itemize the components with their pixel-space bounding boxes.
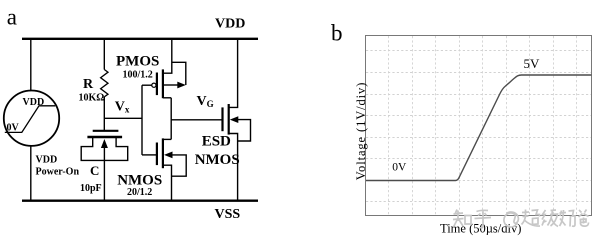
svg-text:VDD: VDD — [215, 17, 245, 32]
char 超 — [522, 210, 541, 227]
resistor R1 zigzag — [101, 70, 108, 97]
svg-text:b: b — [331, 20, 343, 45]
nmos gate lead — [142, 154, 157, 156]
char 奶 — [560, 210, 576, 227]
VSS rail — [22, 199, 258, 201]
char 级 — [542, 210, 558, 227]
svg-text:a: a — [7, 5, 17, 30]
svg-text:0V: 0V — [392, 162, 407, 174]
esd source lead to VSS — [229, 134, 238, 201]
pmos gate bubble — [152, 83, 156, 87]
svg-text:VDD: VDD — [36, 155, 58, 166]
svg-text:10pF: 10pF — [80, 183, 102, 194]
esd bulk tie to source — [230, 116, 239, 123]
voltage source VDD Power-On — [4, 91, 59, 146]
wire: source bottom to VSS rail — [30, 146, 32, 201]
char 乎 — [475, 210, 492, 227]
nmos drain lead — [163, 138, 171, 140]
svg-text:VDD: VDD — [23, 97, 45, 108]
svg-text:0V: 0V — [7, 123, 20, 134]
svg-text:Power-On: Power-On — [36, 167, 80, 178]
svg-text:VSS: VSS — [215, 207, 241, 222]
wire: resistor to node Vx and capacitor top — [103, 97, 105, 131]
svg-text:ESD: ESD — [202, 134, 231, 150]
nmos bulk tie to source — [164, 152, 173, 159]
wire: capacitor bottom to VSS rail — [103, 160, 105, 200]
pmos bulk tie to source — [163, 84, 178, 86]
char 爸 — [579, 210, 589, 227]
pmos gate lead — [142, 84, 152, 86]
node VG wire to ESD NMOS gate — [171, 119, 222, 121]
svg-text:Vx: Vx — [115, 100, 130, 115]
svg-text:10KΩ: 10KΩ — [79, 93, 105, 104]
esd gate bar — [221, 107, 223, 131]
esd nmos M3 — [223, 39, 251, 201]
pmos M1 — [142, 39, 186, 98]
svg-text:Voltage (1V/div): Voltage (1V/div) — [354, 82, 368, 181]
char @ — [504, 212, 518, 227]
esd drain lead to VDD — [229, 39, 238, 108]
svg-text:100/1.2: 100/1.2 — [123, 70, 153, 81]
wire: gate bus Vx to PMOS/NMOS gates — [141, 85, 143, 155]
svg-text:5V: 5V — [524, 56, 541, 71]
pmos channel bar — [162, 69, 164, 98]
esd channel bar — [228, 104, 230, 135]
capacitor C1 (MOS capacitor) — [81, 131, 128, 161]
nmos channel bar — [162, 138, 164, 168]
wire: VDD rail to resistor — [103, 39, 105, 70]
nmos M2 — [142, 138, 186, 200]
svg-text:R: R — [83, 77, 94, 92]
plot border — [366, 36, 592, 216]
svg-text:NMOS: NMOS — [195, 152, 240, 168]
nmos source lead to VSS — [163, 165, 172, 201]
VDD rail — [22, 38, 258, 40]
svg-text:C: C — [90, 163, 99, 178]
char 知 — [453, 210, 464, 228]
watermark 知乎 @超级奶爸 — [453, 210, 589, 228]
pmos drain lead — [163, 97, 171, 99]
nmos gate bar — [156, 143, 158, 166]
svg-text:PMOS: PMOS — [116, 54, 159, 70]
svg-text:20/1.2: 20/1.2 — [127, 187, 152, 198]
pmos gate bar — [156, 73, 158, 96]
pmos source lead to VDD — [163, 39, 172, 73]
wire: VDD rail to source top — [30, 39, 32, 91]
waveform trace: VDD ramp 0V to 5V — [366, 75, 592, 181]
svg-text:VG: VG — [197, 94, 214, 109]
node Vx wire — [104, 117, 142, 119]
wire: inverter output (PMOS drain to NMOS drain) — [170, 98, 172, 140]
oscilloscope grid — [366, 36, 591, 215]
